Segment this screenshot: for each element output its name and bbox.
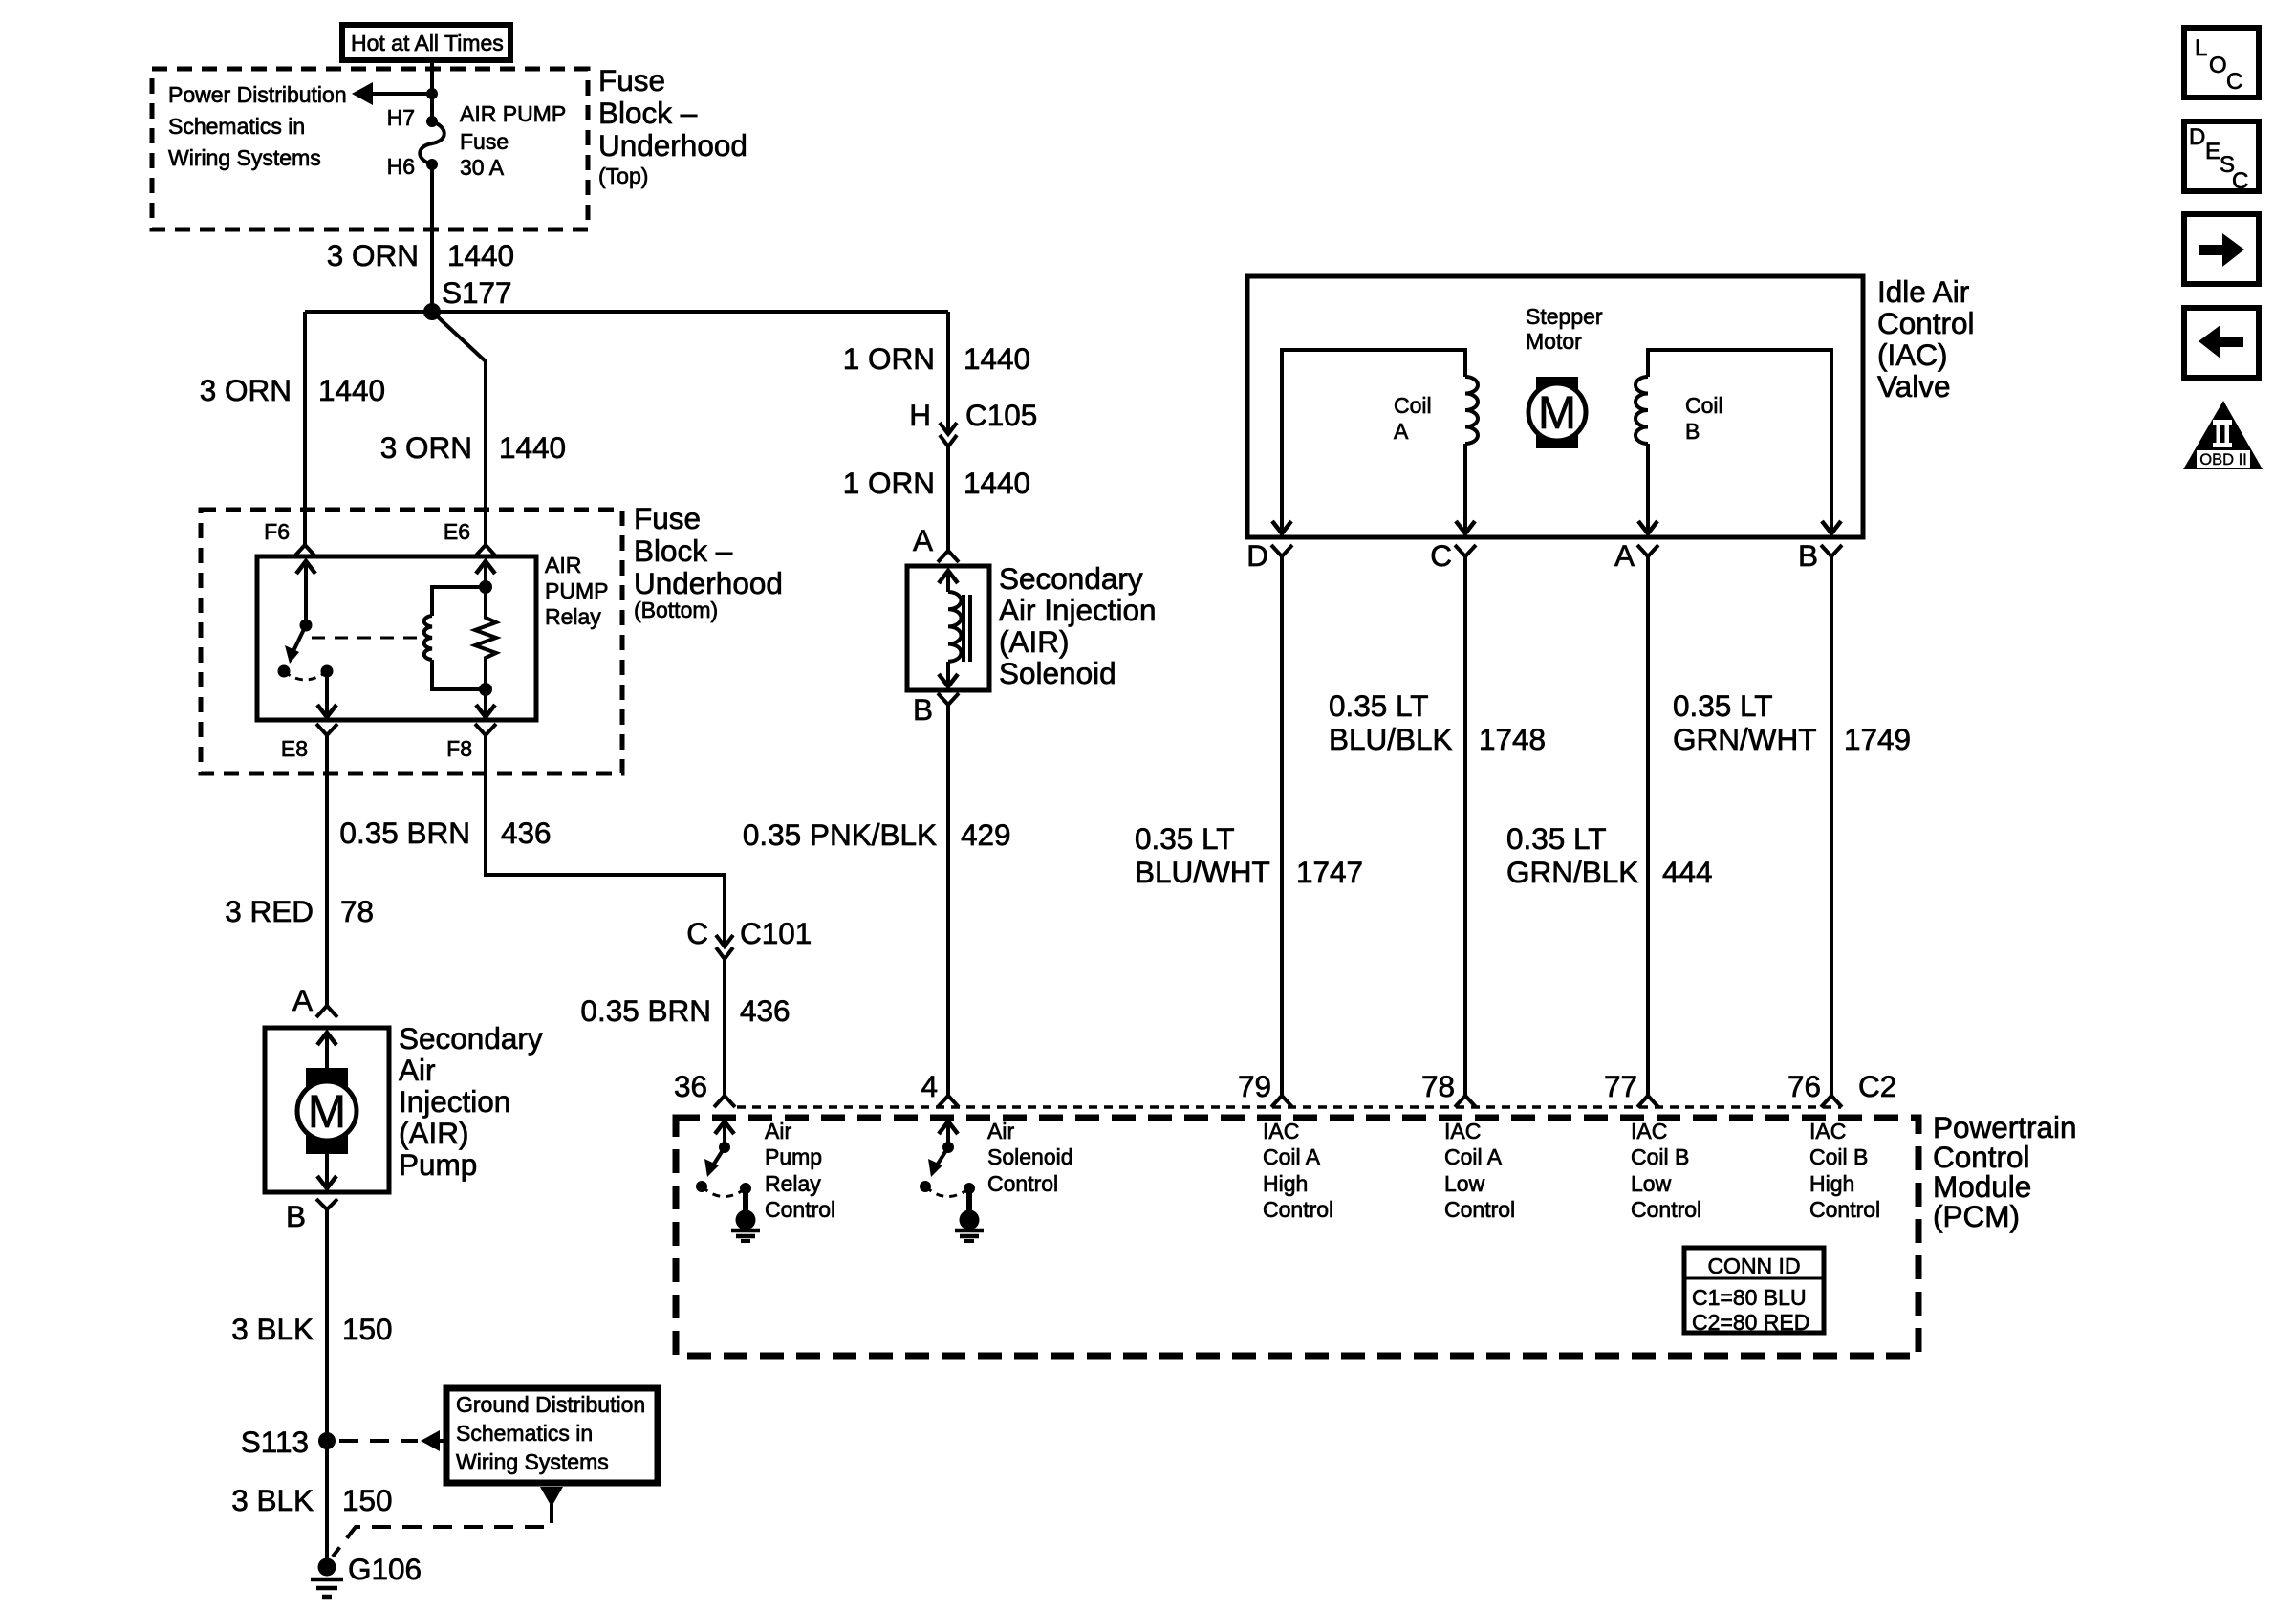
svg-text:Motor: Motor bbox=[1526, 329, 1582, 354]
relay output leg to E8 with down arrow bbox=[317, 671, 336, 717]
fuse value label bbox=[460, 101, 566, 180]
wire right branch to solenoid bbox=[946, 312, 950, 434]
svg-text:D: D bbox=[2189, 124, 2205, 150]
PCM pin 78 bbox=[1421, 1069, 1476, 1107]
relay coil node top bbox=[479, 580, 492, 594]
relay switch arm bbox=[285, 625, 306, 664]
IAC coil A bbox=[1282, 350, 1478, 524]
svg-text:High: High bbox=[1263, 1171, 1308, 1196]
svg-text:Valve: Valve bbox=[1877, 369, 1950, 403]
relay E6 leg with up arrow bbox=[476, 560, 495, 587]
IAC coil A arrows to pins D and C bbox=[1272, 521, 1475, 533]
wire label 1 ORN 1440 (below C105) bbox=[843, 466, 1030, 500]
wire C101 down to PCM pin 36 bbox=[723, 959, 726, 1096]
svg-text:H6: H6 bbox=[387, 154, 415, 179]
wire F8 down then right to C101 bbox=[486, 735, 725, 947]
svg-text:O: O bbox=[2209, 53, 2227, 78]
svg-text:Coil A: Coil A bbox=[1444, 1144, 1503, 1169]
svg-text:Coil A: Coil A bbox=[1263, 1144, 1321, 1169]
icon forward arrow bbox=[2184, 214, 2259, 284]
PCM pin 77 bbox=[1604, 1069, 1658, 1107]
terminal F8 bbox=[475, 724, 496, 735]
svg-text:4: 4 bbox=[921, 1069, 938, 1103]
svg-text:78: 78 bbox=[340, 894, 374, 928]
svg-text:3 BLK: 3 BLK bbox=[231, 1312, 314, 1346]
icon back arrow bbox=[2184, 308, 2259, 378]
svg-text:Pump: Pump bbox=[399, 1147, 477, 1182]
svg-text:B: B bbox=[913, 692, 933, 727]
svg-text:1 ORN: 1 ORN bbox=[843, 341, 935, 376]
Fuse Block (Bottom) label bbox=[634, 501, 783, 622]
PCM label bbox=[1933, 1110, 2077, 1233]
wire label 0.35 BRN 436 bbox=[339, 816, 551, 850]
svg-text:S177: S177 bbox=[442, 275, 512, 310]
PCM pin 79 bbox=[1238, 1069, 1292, 1107]
wire label 3 ORN 1440 (left branch) bbox=[200, 373, 385, 407]
svg-text:BLU/WHT: BLU/WHT bbox=[1135, 855, 1270, 889]
svg-text:Control: Control bbox=[987, 1171, 1058, 1196]
svg-text:B: B bbox=[1685, 419, 1700, 444]
relay common leg from F6 with up arrow bbox=[296, 560, 315, 625]
svg-text:Wiring Systems: Wiring Systems bbox=[168, 145, 321, 170]
wire label 3 RED 78 bbox=[225, 894, 374, 928]
svg-text:1440: 1440 bbox=[499, 430, 566, 465]
wire label 0.35 LT BLU/WHT 1747 bbox=[1135, 821, 1363, 889]
svg-text:Underhood: Underhood bbox=[634, 566, 783, 600]
icon DESC bbox=[2184, 121, 2259, 194]
svg-text:150: 150 bbox=[342, 1483, 393, 1517]
svg-text:Coil B: Coil B bbox=[1809, 1144, 1868, 1169]
wire IAC D to PCM 79 bbox=[1280, 556, 1284, 1096]
svg-text:0.35 LT: 0.35 LT bbox=[1135, 821, 1234, 856]
svg-text:CONN ID: CONN ID bbox=[1707, 1253, 1800, 1278]
svg-text:1440: 1440 bbox=[447, 238, 514, 272]
svg-text:Stepper: Stepper bbox=[1526, 304, 1603, 329]
svg-text:C: C bbox=[1430, 538, 1452, 573]
connector C101 pin C bbox=[686, 916, 812, 959]
svg-text:3 BLK: 3 BLK bbox=[231, 1483, 314, 1517]
svg-text:(IAC): (IAC) bbox=[1877, 337, 1948, 372]
svg-text:F6: F6 bbox=[264, 519, 290, 544]
wire pump B down to S113 bbox=[325, 1209, 329, 1558]
wire from Hot at All Times down to fuse bbox=[430, 60, 434, 121]
svg-text:1440: 1440 bbox=[964, 466, 1030, 500]
AIR solenoid box bbox=[907, 566, 989, 690]
svg-text:Schematics in: Schematics in bbox=[168, 114, 305, 139]
svg-text:79: 79 bbox=[1238, 1069, 1271, 1103]
svg-text:C101: C101 bbox=[740, 916, 812, 950]
svg-text:436: 436 bbox=[501, 816, 552, 850]
svg-text:0.35 BRN: 0.35 BRN bbox=[339, 816, 470, 850]
Ground Distribution reference box bbox=[446, 1388, 658, 1483]
svg-text:Pump: Pump bbox=[765, 1144, 822, 1169]
svg-text:S113: S113 bbox=[241, 1425, 309, 1459]
svg-text:0.35 LT: 0.35 LT bbox=[1329, 688, 1428, 723]
svg-text:(AIR): (AIR) bbox=[399, 1116, 469, 1150]
svg-text:(AIR): (AIR) bbox=[999, 624, 1070, 659]
svg-text:Fuse: Fuse bbox=[598, 63, 665, 98]
svg-text:C2: C2 bbox=[1858, 1069, 1896, 1103]
ground G106 bbox=[311, 1552, 422, 1597]
svg-text:0.35 LT: 0.35 LT bbox=[1673, 688, 1772, 723]
svg-text:1747: 1747 bbox=[1296, 855, 1363, 889]
svg-text:Control: Control bbox=[1631, 1197, 1701, 1222]
svg-text:Coil: Coil bbox=[1685, 393, 1723, 418]
IAC coil A low control label bbox=[1444, 1119, 1515, 1222]
svg-text:Control: Control bbox=[1877, 306, 1975, 340]
terminal B of AIR pump bbox=[286, 1199, 337, 1233]
terminal A of AIR pump bbox=[292, 983, 337, 1017]
wire left branch down to F6 bbox=[303, 312, 307, 545]
relay F8 leg with down arrow bbox=[476, 689, 495, 717]
wire label 0.35 LT GRN/BLK 444 bbox=[1506, 821, 1713, 889]
svg-text:(PCM): (PCM) bbox=[1933, 1199, 2020, 1233]
air solenoid control label bbox=[987, 1119, 1073, 1196]
connector C105 pin H bbox=[909, 398, 1037, 446]
relay coil node bottom bbox=[479, 683, 492, 696]
svg-text:(Bottom): (Bottom) bbox=[634, 598, 718, 622]
svg-text:Air: Air bbox=[987, 1119, 1014, 1143]
svg-text:Control: Control bbox=[765, 1197, 835, 1222]
wire E8 down to AIR pump bbox=[325, 735, 329, 1006]
svg-text:3 ORN: 3 ORN bbox=[380, 430, 472, 465]
relay coil L1 bbox=[424, 587, 486, 689]
svg-text:78: 78 bbox=[1421, 1069, 1455, 1103]
svg-text:Relay: Relay bbox=[545, 604, 601, 629]
wire label 1 ORN 1440 bbox=[843, 341, 1030, 376]
wire fuse to splice S177, 3 ORN 1440 bbox=[430, 164, 434, 312]
svg-text:L: L bbox=[2195, 35, 2207, 61]
svg-text:IAC: IAC bbox=[1263, 1119, 1299, 1143]
PCM air solenoid control driver switch bbox=[920, 1121, 984, 1241]
svg-text:Air Injection: Air Injection bbox=[999, 593, 1157, 627]
dashed reference from S113 to Ground Distribution box bbox=[339, 1430, 446, 1451]
wire solenoid B down to PCM pin 4 bbox=[946, 705, 950, 1096]
svg-text:429: 429 bbox=[961, 817, 1011, 852]
wire label 0.35 BRN 436 (lower) bbox=[580, 993, 790, 1028]
svg-text:Control: Control bbox=[1809, 1197, 1880, 1222]
svg-text:Control: Control bbox=[1444, 1197, 1515, 1222]
svg-text:444: 444 bbox=[1662, 855, 1713, 889]
svg-text:1440: 1440 bbox=[318, 373, 385, 407]
splice S113 bbox=[241, 1425, 336, 1459]
wire label 3 ORN 1440 (E6 branch) bbox=[380, 430, 566, 465]
svg-text:Coil B: Coil B bbox=[1631, 1144, 1689, 1169]
svg-text:C: C bbox=[686, 916, 708, 950]
IAC terminal B bbox=[1798, 538, 1842, 573]
relay label bbox=[545, 553, 608, 629]
svg-text:Low: Low bbox=[1444, 1171, 1485, 1196]
svg-text:3 ORN: 3 ORN bbox=[200, 373, 292, 407]
stepper motor label bbox=[1526, 304, 1603, 354]
svg-text:C1=80 BLU: C1=80 BLU bbox=[1692, 1285, 1807, 1310]
Fuse Block (Top) label bbox=[598, 63, 747, 188]
CONN ID table bbox=[1684, 1248, 1824, 1335]
wire label 3 BLK 150 (lower) bbox=[231, 1483, 392, 1517]
Fuse Block Underhood (Top) dashed box bbox=[152, 69, 588, 229]
PCM connector face dashed line bbox=[737, 1105, 1841, 1109]
svg-text:A: A bbox=[292, 983, 313, 1017]
IAC coil B low control label bbox=[1631, 1119, 1701, 1222]
svg-text:Solenoid: Solenoid bbox=[999, 656, 1116, 690]
svg-text:H: H bbox=[909, 398, 931, 432]
IAC coil B arrows to pins A and B bbox=[1638, 521, 1841, 533]
IAC terminal D bbox=[1246, 538, 1292, 573]
relay K1 AIR PUMP relay box bbox=[257, 556, 536, 720]
svg-text:Schematics in: Schematics in bbox=[456, 1421, 593, 1446]
svg-text:Solenoid: Solenoid bbox=[987, 1144, 1073, 1169]
terminal A of AIR solenoid bbox=[913, 523, 959, 562]
wire diagonal S177 to E6 branch bbox=[432, 312, 486, 545]
IAC coil B bbox=[1635, 350, 1831, 524]
wire C105 to solenoid pin A, 1 ORN 1440 bbox=[946, 446, 950, 551]
svg-text:Power Distribution: Power Distribution bbox=[168, 82, 347, 107]
IAC terminal A bbox=[1614, 538, 1658, 573]
relay contact left bbox=[278, 665, 291, 678]
svg-text:0.35 PNK/BLK: 0.35 PNK/BLK bbox=[743, 817, 937, 852]
AIR pump label bbox=[399, 1021, 543, 1182]
svg-text:1440: 1440 bbox=[964, 341, 1030, 376]
svg-text:0.35 LT: 0.35 LT bbox=[1506, 821, 1606, 856]
svg-text:150: 150 bbox=[342, 1312, 393, 1346]
svg-text:Low: Low bbox=[1631, 1171, 1672, 1196]
svg-text:High: High bbox=[1809, 1171, 1854, 1196]
wire label 0.35 PNK/BLK 429 bbox=[743, 817, 1011, 852]
terminal F6 bbox=[294, 545, 315, 556]
relay contact dashed arc bbox=[284, 671, 327, 680]
svg-text:30 A: 30 A bbox=[460, 155, 505, 180]
IAC valve label bbox=[1877, 274, 1975, 403]
wire label 3 BLK 150 bbox=[231, 1312, 392, 1346]
Fuse Block Underhood (Bottom) dashed box bbox=[201, 510, 622, 773]
IAC coil A high control label bbox=[1263, 1119, 1333, 1222]
svg-text:77: 77 bbox=[1604, 1069, 1637, 1103]
svg-text:1748: 1748 bbox=[1479, 722, 1546, 756]
wire label 0.35 LT BLU/BLK 1748 bbox=[1329, 688, 1546, 756]
IAC valve box bbox=[1247, 276, 1863, 537]
IAC stepper motor M2 bbox=[1528, 377, 1586, 448]
wire label 3 ORN 1440 bbox=[327, 238, 514, 272]
svg-text:Underhood: Underhood bbox=[598, 128, 747, 163]
svg-text:Secondary: Secondary bbox=[999, 561, 1143, 596]
air pump relay control label bbox=[765, 1119, 835, 1222]
icon LOC bbox=[2184, 28, 2259, 98]
PCM pin 4 bbox=[921, 1069, 959, 1107]
svg-text:BLU/BLK: BLU/BLK bbox=[1329, 722, 1453, 756]
svg-text:Injection: Injection bbox=[399, 1084, 510, 1119]
svg-text:Ground Distribution: Ground Distribution bbox=[456, 1392, 645, 1417]
terminal E8 bbox=[316, 724, 337, 735]
svg-text:E8: E8 bbox=[281, 736, 308, 761]
svg-text:GRN/BLK: GRN/BLK bbox=[1506, 855, 1638, 889]
svg-text:Wiring Systems: Wiring Systems bbox=[456, 1449, 609, 1474]
wire IAC C to PCM 78 bbox=[1463, 556, 1467, 1096]
svg-text:A: A bbox=[1394, 419, 1409, 444]
svg-text:1 ORN: 1 ORN bbox=[843, 466, 935, 500]
svg-text:Fuse: Fuse bbox=[460, 129, 509, 154]
PCM pin 76 and connector C2 bbox=[1787, 1069, 1896, 1107]
svg-text:Block –: Block – bbox=[634, 533, 733, 568]
svg-text:Hot at All Times: Hot at All Times bbox=[351, 31, 504, 55]
svg-text:C105: C105 bbox=[965, 398, 1037, 432]
svg-text:F8: F8 bbox=[446, 736, 472, 761]
AIR pump box bbox=[265, 1028, 389, 1192]
svg-text:Air: Air bbox=[765, 1119, 791, 1143]
svg-text:M: M bbox=[308, 1087, 346, 1138]
svg-text:C: C bbox=[2226, 69, 2242, 95]
svg-text:GRN/WHT: GRN/WHT bbox=[1673, 722, 1816, 756]
Power Distribution reference label bbox=[168, 82, 347, 170]
Hot at All Times box bbox=[342, 25, 510, 60]
svg-text:OBD II: OBD II bbox=[2199, 451, 2247, 468]
svg-text:3 ORN: 3 ORN bbox=[327, 238, 419, 272]
svg-text:IAC: IAC bbox=[1631, 1119, 1667, 1143]
relay resistor bbox=[475, 587, 496, 689]
relay contact right bbox=[321, 665, 334, 678]
svg-text:3 RED: 3 RED bbox=[225, 894, 314, 928]
wire arrow to Power Distribution bbox=[352, 82, 432, 105]
svg-text:0.35 BRN: 0.35 BRN bbox=[580, 993, 711, 1028]
svg-text:PUMP: PUMP bbox=[545, 578, 608, 603]
svg-text:Air: Air bbox=[399, 1053, 436, 1087]
relay mechanical dashed link bbox=[312, 637, 417, 640]
terminal E6 bbox=[475, 545, 496, 556]
svg-text:Coil: Coil bbox=[1394, 393, 1432, 418]
fuse F1 AIR PUMP 30 A bbox=[420, 116, 444, 170]
svg-text:Block –: Block – bbox=[598, 96, 698, 130]
svg-text:B: B bbox=[286, 1199, 306, 1233]
svg-text:AIR PUMP: AIR PUMP bbox=[460, 101, 566, 126]
svg-text:Idle Air: Idle Air bbox=[1877, 274, 1969, 309]
svg-text:76: 76 bbox=[1787, 1069, 1821, 1103]
IAC coil B label bbox=[1685, 393, 1723, 444]
splice S177 bbox=[423, 275, 512, 320]
icon OBD II bbox=[2183, 401, 2263, 469]
PCM dashed box bbox=[676, 1118, 1918, 1356]
svg-text:IAC: IAC bbox=[1444, 1119, 1481, 1143]
AIR pump motor M1 bbox=[297, 1032, 357, 1188]
svg-text:IAC: IAC bbox=[1809, 1119, 1846, 1143]
wire IAC A to PCM 77 bbox=[1646, 556, 1650, 1096]
dashed path from Ground Distribution box to G106 bbox=[333, 1487, 563, 1557]
PCM air pump relay control driver switch bbox=[696, 1121, 760, 1241]
svg-text:Fuse: Fuse bbox=[634, 501, 701, 535]
svg-text:1749: 1749 bbox=[1844, 722, 1911, 756]
svg-text:H7: H7 bbox=[387, 105, 415, 130]
wire IAC B to PCM 76 bbox=[1830, 556, 1833, 1096]
svg-text:G106: G106 bbox=[348, 1552, 422, 1586]
svg-text:Secondary: Secondary bbox=[399, 1021, 543, 1056]
svg-text:M: M bbox=[1538, 388, 1576, 439]
svg-text:36: 36 bbox=[674, 1069, 707, 1103]
terminal B of AIR solenoid bbox=[913, 692, 959, 727]
svg-text:D: D bbox=[1246, 538, 1268, 573]
AIR solenoid label bbox=[999, 561, 1157, 690]
svg-text:E: E bbox=[2205, 139, 2220, 164]
wire bus from S177 left and right bbox=[305, 310, 948, 314]
svg-text:436: 436 bbox=[740, 993, 791, 1028]
svg-text:C2=80 RED: C2=80 RED bbox=[1692, 1310, 1809, 1335]
svg-text:AIR: AIR bbox=[545, 553, 581, 577]
svg-text:C: C bbox=[2232, 168, 2248, 194]
relay switch pivot bbox=[300, 620, 313, 632]
IAC coil A label bbox=[1394, 393, 1432, 444]
svg-text:A: A bbox=[913, 523, 933, 557]
node junction to power distribution arrow bbox=[426, 88, 438, 99]
IAC coil B high control label bbox=[1809, 1119, 1880, 1222]
svg-text:A: A bbox=[1614, 538, 1635, 573]
svg-text:Relay: Relay bbox=[765, 1171, 821, 1196]
svg-text:B: B bbox=[1798, 538, 1818, 573]
svg-text:Control: Control bbox=[1263, 1197, 1333, 1222]
IAC terminal C bbox=[1430, 538, 1476, 573]
svg-text:(Top): (Top) bbox=[598, 163, 648, 188]
PCM pin 36 bbox=[674, 1069, 735, 1107]
solenoid coil with core bbox=[939, 570, 970, 686]
svg-text:E6: E6 bbox=[444, 519, 470, 544]
wire label 0.35 LT GRN/WHT 1749 bbox=[1673, 688, 1911, 756]
